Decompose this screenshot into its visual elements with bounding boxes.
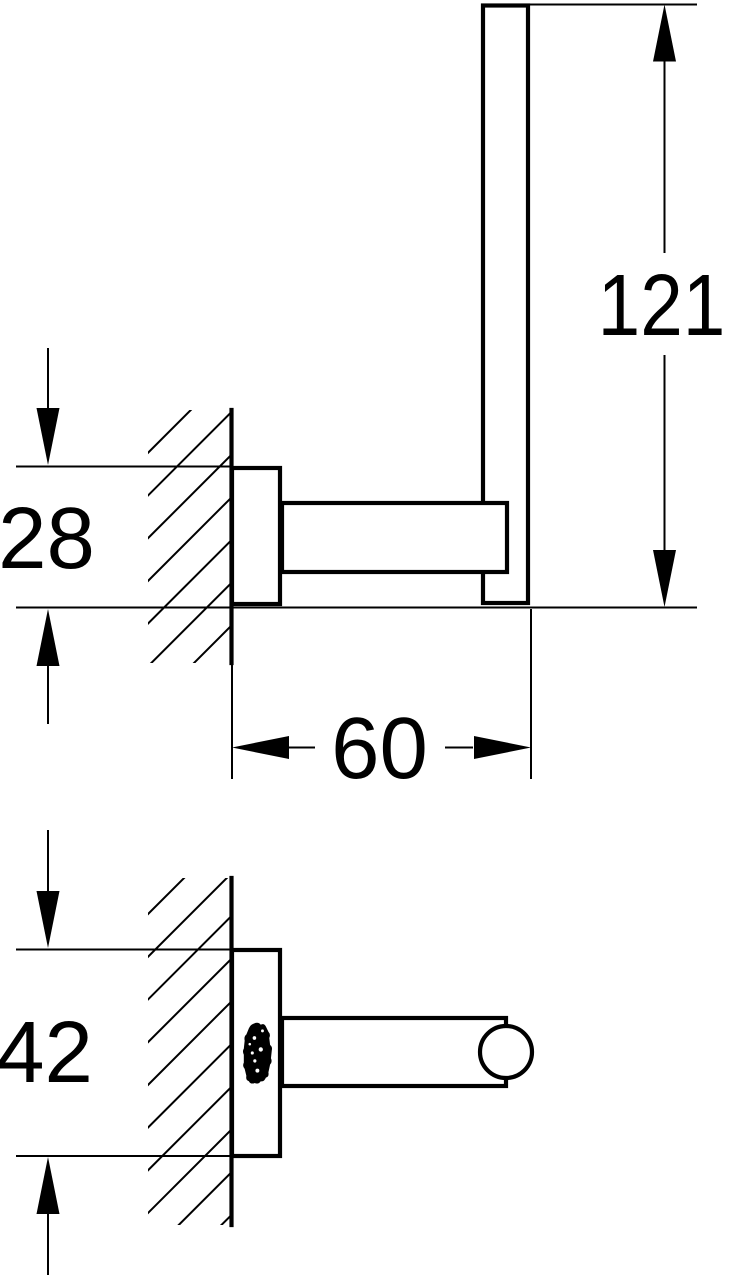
dim 60 line right segment: [445, 747, 473, 749]
dim 42 arrowhead down: [37, 891, 60, 948]
extension line for dim 28 top: [16, 466, 232, 468]
dim 42 lower leader line: [47, 1212, 49, 1275]
dim 28 upper leader line: [47, 348, 49, 410]
svg-text:28: 28: [0, 490, 95, 587]
svg-text:60: 60: [331, 700, 428, 797]
arrowhead 121 bottom: [653, 550, 676, 607]
wall plate (top view): [232, 950, 280, 1156]
GROHE logo blob on plate: [243, 1023, 272, 1084]
dim 28 lower leader line: [47, 664, 49, 724]
wall plate (side view): [232, 468, 280, 604]
wall hatching (bottom figure): [144, 831, 232, 1280]
arrowhead 121 top: [653, 5, 676, 62]
horizontal arm (top view): [282, 1018, 506, 1086]
wall hatching (top figure): [144, 369, 232, 713]
extension line bottom (y=607, shared): [16, 607, 697, 609]
extension line for dim 42 top: [16, 949, 232, 951]
extension line left for dim 60 (below wall): [231, 663, 233, 779]
dim 42 arrowhead up: [37, 1157, 60, 1214]
extension line right for dim 60: [530, 609, 532, 779]
wall surface line (bottom figure): [229, 878, 233, 1225]
svg-text:121: 121: [598, 257, 726, 354]
dim 60 arrowhead right: [474, 736, 531, 759]
dim 28 arrowhead down: [37, 408, 60, 465]
horizontal arm (side view, covers bar left edge): [282, 503, 507, 572]
dim 121 line upper segment: [664, 60, 666, 253]
dim 60 line left segment: [288, 747, 315, 749]
dim 42 upper leader line: [47, 830, 49, 892]
extension line top (y=5, for dim 121): [528, 4, 697, 6]
vertical bar of holder (side view): [483, 6, 528, 604]
extension line for dim 42 bottom: [16, 1155, 232, 1157]
wall surface line (top figure): [229, 410, 233, 663]
roll-holder end circle (top view): [480, 1026, 532, 1078]
dim 121 line lower segment: [664, 355, 666, 552]
dim 28 arrowhead up: [37, 609, 60, 666]
dim 60 arrowhead left: [232, 736, 289, 759]
svg-text:42: 42: [0, 1004, 93, 1101]
